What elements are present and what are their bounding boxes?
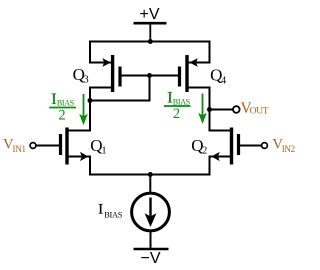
- svg-text:+V: +V: [139, 6, 159, 23]
- wire left drain to Q1: [89, 101, 91, 132]
- transistor Q1 gate bar: [59, 134, 62, 155]
- svg-text:I: I: [167, 90, 172, 107]
- terminal VIN1 circle: [30, 143, 36, 149]
- wire Q3 drain lead: [90, 88, 111, 101]
- wire diode-connect riser: [149, 76, 151, 101]
- wire +V stem: [149, 24, 151, 43]
- current arrow left (green): [83, 94, 85, 118]
- transistor Q3 channel bar: [111, 55, 114, 92]
- -V supply bar: [134, 248, 169, 251]
- wire tail stem: [149, 175, 151, 194]
- svg-text:I: I: [98, 202, 103, 218]
- svg-text:1: 1: [102, 146, 107, 157]
- wire top rail: [89, 41, 211, 43]
- wire Q4 source lead: [189, 62, 211, 64]
- current arrow right (green): [202, 94, 204, 117]
- current source IBIAS circle: [132, 193, 170, 231]
- wire Q1 source lead: [68, 156, 91, 158]
- wire Q3 source lead: [89, 62, 111, 64]
- Q1 source arrow (NMOS, pointing out): [80, 152, 88, 161]
- label IBIAS/2 left (green): [49, 91, 76, 124]
- svg-text:2: 2: [58, 108, 65, 124]
- wire Q4 drain lead: [189, 88, 210, 110]
- svg-text:BIAS: BIAS: [173, 97, 190, 106]
- svg-text:IN1: IN1: [13, 144, 26, 154]
- svg-text:2: 2: [173, 106, 180, 122]
- node tail junction: [148, 172, 153, 177]
- svg-text:2: 2: [202, 146, 207, 157]
- wire right rail drop: [209, 41, 211, 64]
- transistor Q4 channel bar: [185, 55, 188, 92]
- wire diode-connect horizontal: [90, 100, 151, 102]
- label IBIAS/2 right (green): [164, 90, 191, 123]
- svg-text:−V: −V: [140, 250, 160, 267]
- Q2 source arrow (NMOS, pointing out): [211, 152, 219, 161]
- +V supply bar: [134, 22, 167, 25]
- wire tail rail: [90, 174, 210, 176]
- transistor Q1 channel bar: [65, 128, 68, 165]
- Q4 source arrow (PMOS, pointing into channel): [189, 58, 197, 67]
- wire Q1 source drop: [89, 156, 91, 176]
- transistor Q4 gate bar: [178, 67, 181, 87]
- svg-text:BIAS: BIAS: [104, 211, 123, 220]
- svg-text:BIAS: BIAS: [57, 99, 74, 108]
- wire left rail drop: [89, 41, 91, 64]
- svg-text:3: 3: [84, 75, 89, 86]
- wire Q1 gate lead: [36, 145, 59, 147]
- terminal VOUT circle: [233, 106, 240, 113]
- svg-text:4: 4: [221, 75, 226, 86]
- wire Q1 drain lead: [68, 130, 91, 132]
- Q3 source arrow (PMOS, pointing into channel): [102, 58, 110, 67]
- node top rail junction: [148, 39, 153, 44]
- terminal VIN2 circle: [262, 143, 268, 149]
- transistor Q2 gate bar: [237, 134, 240, 155]
- wire VOUT tap: [210, 109, 234, 111]
- wire below current source: [150, 231, 152, 249]
- node VOUT junction: [207, 107, 212, 112]
- wire gate line Q3-Q4: [122, 75, 179, 77]
- transistor Q3 gate bar: [118, 67, 121, 87]
- wire Q2 gate lead: [240, 145, 263, 147]
- wire Q2 source drop: [209, 156, 211, 176]
- wire Q2 drain lead: [209, 130, 232, 132]
- node left drain junction: [88, 98, 93, 103]
- svg-text:I: I: [51, 91, 56, 108]
- wire right drain to Q2: [209, 110, 211, 132]
- node gate line junction: [147, 73, 152, 78]
- svg-text:IN2: IN2: [282, 144, 295, 154]
- wire Q2 source lead: [209, 156, 232, 158]
- transistor Q2 channel bar: [230, 128, 233, 165]
- svg-text:OUT: OUT: [250, 106, 269, 117]
- current source arrow: [149, 198, 151, 221]
